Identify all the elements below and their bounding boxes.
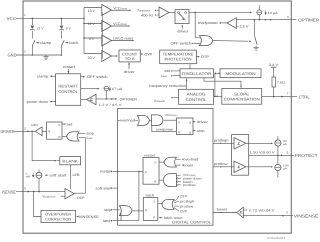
svg-text:OPTIMER: OPTIMER	[298, 17, 319, 22]
ground below OPTIMER switch	[254, 46, 259, 50]
svg-text:off: off	[26, 175, 30, 179]
svg-text:1.50 V/0.80 V: 1.50 V/0.80 V	[250, 151, 276, 155]
wire latch line	[113, 220, 139, 222]
wire VINSENSE pin net	[243, 215, 293, 217]
svg-text:OSCILLATOR: OSCILLATOR	[182, 71, 212, 76]
wire protlow stub	[178, 184, 181, 186]
driver switch box	[175, 10, 189, 24]
wire CTRL pin net	[262, 96, 297, 98]
node Q-branch	[194, 12, 196, 14]
AND gate driver set	[151, 115, 162, 126]
svg-text:4: 4	[24, 186, 26, 190]
arrow Is direction	[32, 173, 34, 177]
switch latch	[62, 40, 65, 46]
wire resistor to CTRL	[273, 87, 275, 97]
wire branch down to OR gate	[194, 12, 196, 37]
svg-text:fmax: fmax	[161, 74, 167, 78]
wire zener D2 to switch	[61, 31, 63, 39]
wire stop output	[193, 130, 195, 132]
ground symbol on GND rail	[43, 55, 48, 59]
current source 30uA	[275, 140, 281, 146]
wire overload stub from edge	[118, 119, 120, 121]
wire DRV buffer input	[42, 130, 47, 132]
node restart-latch branch	[138, 171, 140, 173]
comparator protlow	[234, 161, 246, 172]
supply tick 3.4V	[271, 66, 276, 68]
wire switch2 to GND	[61, 46, 63, 55]
arrow clamp output	[50, 75, 52, 77]
wire soft start source top stub	[38, 170, 40, 173]
svg-text:PROTECT: PROTECT	[295, 153, 318, 158]
wire restart into block	[67, 69, 69, 74]
svg-text:R: R	[153, 216, 155, 220]
wire OR to OPTIMER discharge switch	[213, 40, 248, 43]
svg-text:set: set	[164, 69, 170, 73]
wire VCC rail	[16, 17, 84, 19]
wire 10uA source top stub	[258, 5, 260, 10]
wire 67uA to OPTIMER sense line	[105, 91, 107, 99]
wire tap 13V	[84, 7, 102, 9]
svg-text:protlow: protlow	[180, 204, 194, 208]
arrow soft start control	[45, 174, 47, 176]
svg-text:COUNT: COUNT	[122, 52, 138, 56]
svg-text:OTP: OTP	[180, 194, 188, 198]
wire OFF switch output	[81, 76, 85, 78]
svg-text:67 µA: 67 µA	[112, 87, 123, 91]
comparator VCC(start) 13V	[102, 5, 112, 16]
wire driver switch to 10uA source	[189, 11, 251, 13]
svg-text:µA: µA	[283, 143, 287, 146]
wire DRIVER pin net	[14, 130, 35, 132]
OR gate latch inputs	[162, 199, 174, 209]
svg-text:OFF switch: OFF switch	[171, 42, 192, 46]
svg-text:restart: restart	[100, 170, 112, 174]
wire set into oscillator	[173, 70, 180, 72]
svg-text:3.4 V: 3.4 V	[269, 63, 279, 67]
wire OCP output	[74, 192, 85, 194]
wire OVP stub	[174, 208, 179, 212]
svg-text:clamp: clamp	[40, 41, 51, 45]
svg-text:OVP: OVP	[180, 209, 188, 213]
wire driver clock into counter	[128, 63, 130, 69]
wire OTP output	[196, 56, 199, 58]
hysteresis glyph vinsense	[240, 211, 243, 213]
wire OR to S latch FF	[158, 203, 162, 204]
svg-text:DRV: DRV	[31, 123, 38, 127]
arrow power down output	[50, 101, 52, 103]
wire oscillator to slope compensation	[204, 78, 241, 88]
arrow clamp control	[36, 42, 38, 44]
arrow VINSENSE input	[77, 216, 79, 218]
flip-flop latch FF	[143, 198, 158, 221]
wire tap 9V	[84, 37, 102, 39]
block BLANK	[60, 157, 81, 165]
block ANALOG CONTROL	[179, 89, 214, 104]
svg-text:22 V: 22 V	[37, 27, 45, 31]
wire tap 12V	[84, 23, 102, 25]
wire zener D1 to switch	[31, 31, 33, 39]
wire 30uA top stub	[277, 136, 279, 140]
svg-text:13 V: 13 V	[88, 9, 96, 13]
svg-text:protlow: protlow	[214, 162, 228, 166]
wire osc-mod link down to slope-analog link	[214, 73, 216, 96]
block DIGITAL CONTROL	[118, 108, 213, 225]
svg-text:latch: latch	[146, 194, 155, 198]
wire VCC(start) stub	[177, 174, 181, 176]
svg-text:2: 2	[24, 50, 26, 54]
wire 100uA bottom stub	[277, 171, 279, 178]
svg-text:soft start: soft start	[49, 174, 66, 178]
wire VCC sense bus	[83, 8, 85, 54]
wire prothigh stub	[174, 201, 179, 203]
wire fmax input stub	[79, 137, 86, 139]
svg-text:set: set	[66, 122, 72, 126]
svg-text:400 Hz: 400 Hz	[141, 13, 154, 17]
wire ISENSE pin net	[16, 191, 65, 193]
svg-text:overpower: overpower	[156, 128, 175, 132]
wire oscillator-modulation	[216, 72, 220, 74]
svg-text:VCC(stop): VCC(stop)	[113, 22, 127, 26]
wire LEB blanking to OCP	[70, 165, 72, 189]
svg-text:driver: driver	[197, 120, 209, 124]
svg-text:VINSENSE: VINSENSE	[79, 215, 100, 219]
wire restart line	[113, 170, 143, 172]
svg-text:DRIVER: DRIVER	[1, 129, 15, 134]
wire AND to R restart FF	[159, 179, 163, 181]
wire comparator lower-input chain	[101, 13, 103, 59]
svg-text:12 V: 12 V	[88, 22, 96, 26]
wire vinpeak into analog control	[173, 97, 178, 99]
current source 10uA	[257, 10, 262, 15]
svg-text:GND: GND	[8, 53, 17, 58]
wire bowin	[213, 212, 237, 214]
svg-text:overload: overload	[183, 157, 198, 161]
wire soft start into block	[113, 187, 118, 189]
wire driver to BLANK	[32, 131, 56, 160]
svg-text:bowin: bowin	[183, 163, 193, 167]
svg-text:CORRECTION: CORRECTION	[45, 217, 71, 221]
wire OR to S restart FF	[159, 161, 164, 163]
node CTRL-resistor	[273, 96, 275, 98]
wire power down stub	[178, 177, 181, 179]
wire PROTECT to 100uA	[277, 155, 279, 164]
wire temp block to oscillator	[189, 64, 191, 69]
comparator VINSENSE 0.72V/0.84V	[237, 207, 244, 218]
svg-text:Vvinpeak: Vvinpeak	[154, 99, 166, 103]
hysteresis glyph prothigh	[237, 143, 240, 145]
svg-text:latch reset: latch reset	[164, 216, 183, 220]
wire tap 30V	[84, 53, 102, 55]
arrow latch reset	[159, 217, 161, 219]
wire comparator to driver switch	[169, 12, 175, 14]
svg-text:latch: latch	[103, 219, 112, 223]
svg-text:frequency reduction: frequency reduction	[149, 84, 186, 88]
block RESTART CONTROL	[56, 74, 81, 106]
svg-text:protlow: protlow	[183, 183, 196, 187]
svg-text:restart: restart	[144, 154, 155, 158]
wire protlow stub 2	[174, 205, 179, 207]
wire OPTIMER pin net	[236, 19, 296, 21]
svg-text:latch: latch	[69, 41, 78, 45]
comparator OCP	[65, 188, 74, 198]
arrow 10uA direction	[265, 10, 267, 15]
block OVERPOWER CORRECTION	[41, 210, 76, 222]
wire OR to R input	[62, 135, 67, 137]
AND gate restart reset	[163, 174, 176, 187]
wire OPTIMER down to switch	[253, 20, 255, 36]
svg-text:µA: µA	[283, 168, 287, 171]
svg-text:3: 3	[24, 126, 26, 130]
svg-text:CONTROL: CONTROL	[186, 97, 208, 102]
svg-text:UVLO reset: UVLO reset	[113, 36, 133, 40]
wire PROTECT pin net	[249, 154, 294, 156]
svg-text:OPTIMER: OPTIMER	[120, 97, 138, 101]
block OSCILLATOR	[180, 69, 214, 78]
svg-text:MODULATION: MODULATION	[226, 71, 256, 76]
comparator prothigh	[234, 138, 246, 149]
svg-text:0.72 V/0.84 V: 0.72 V/0.84 V	[249, 208, 276, 212]
node GND-sw2	[61, 54, 63, 56]
arrow switch control	[249, 40, 251, 42]
wire stop into OR	[113, 209, 120, 211]
svg-text:S: S	[153, 200, 155, 204]
svg-text:soft start: soft start	[96, 186, 112, 190]
svg-text:2.5 V: 2.5 V	[239, 25, 249, 29]
svg-text:clamp: clamp	[37, 75, 48, 79]
svg-text:VINSENSE: VINSENSE	[294, 213, 319, 218]
node OPTIMER-67uA	[106, 98, 108, 100]
node isense-softstart	[38, 191, 40, 193]
svg-text:S: S	[154, 161, 156, 165]
flip-flop restart FF	[143, 158, 159, 185]
switch clamp	[32, 40, 35, 46]
comparator overpower 2.5V	[227, 18, 236, 29]
arrow 67uA direction	[109, 86, 111, 90]
block SLOPE COMPENSATION	[222, 88, 262, 104]
svg-text:S: S	[178, 120, 180, 124]
wire zener D1 top	[31, 18, 33, 25]
wire AND to driver FF S	[164, 119, 177, 121]
zener diode 22 V clamp	[30, 26, 34, 29]
wire 2.5V ref stub	[236, 25, 238, 27]
wire protlow	[213, 166, 234, 168]
svg-text:VCC(start): VCC(start)	[113, 6, 127, 10]
wire stop input stub	[79, 132, 86, 134]
svg-text:R: R	[154, 180, 156, 184]
svg-text:BLANK: BLANK	[62, 160, 78, 164]
svg-text:bowin: bowin	[217, 208, 228, 212]
wire prothigh comparator to 30uA source	[246, 142, 272, 144]
svg-text:R: R	[58, 135, 60, 139]
svg-text:DIGITAL CONTROL: DIGITAL CONTROL	[172, 221, 211, 225]
wire zener D2 top	[61, 18, 63, 25]
comparator antipause	[159, 7, 169, 18]
node VCC-zener1	[32, 18, 34, 20]
svg-text:OVERPOWER: OVERPOWER	[45, 213, 71, 217]
svg-text:CTRL: CTRL	[299, 94, 311, 99]
svg-text:1: 1	[24, 13, 26, 17]
svg-text:30 V: 30 V	[88, 56, 96, 60]
svg-text:stop: stop	[197, 129, 205, 133]
OR gate stop/fmax	[67, 132, 79, 141]
wire 10uA source to OPTIMER line	[258, 15, 260, 20]
wire comparator to counter	[112, 55, 118, 57]
svg-text:10 µA: 10 µA	[268, 11, 279, 15]
svg-text:VCC: VCC	[7, 16, 17, 21]
schmitt trigger OPTIMER 1.2V/4.5V	[87, 94, 96, 104]
wire restart control to 67uA source	[81, 88, 99, 90]
wire overpower correction to ISENSE	[34, 192, 41, 217]
svg-text:6: 6	[287, 150, 289, 154]
svg-text:019aab284: 019aab284	[267, 236, 285, 240]
wire schmitt output to restart control	[81, 99, 87, 101]
node VCC-bus	[83, 18, 85, 20]
wire slope to analog	[214, 95, 222, 97]
wire fmax into oscillator	[173, 75, 180, 77]
svg-text:restart: restart	[63, 65, 75, 69]
wire prothigh	[213, 142, 234, 144]
OR gate off-switch	[199, 36, 212, 46]
wire bowin stub	[176, 164, 181, 166]
svg-text:stop: stop	[87, 132, 95, 136]
svg-text:prothigh: prothigh	[214, 139, 229, 143]
OR gate restart set	[164, 157, 176, 167]
svg-text:V(adj)sense: V(adj)sense	[42, 195, 56, 199]
wire 3.4V to resistor	[273, 67, 275, 77]
wire OR to latch FF	[132, 210, 143, 212]
svg-text:8: 8	[287, 15, 289, 19]
hysteresis glyph protlow	[237, 166, 240, 168]
wire set into S	[62, 123, 65, 125]
svg-text:prothigh: prothigh	[180, 199, 194, 203]
wire VCC(start) output	[112, 9, 131, 11]
svg-text:OCP: OCP	[77, 196, 85, 200]
node OPTIMER-source	[259, 19, 261, 21]
wire VCC(stop) output	[112, 25, 130, 27]
svg-text:Tantipause: Tantipause	[137, 9, 151, 13]
block TEMPERATURE PROTECTION	[160, 50, 197, 64]
node VCC-zener2	[61, 18, 63, 20]
comparator VCC(stop) 12V	[102, 21, 112, 32]
node driver-blank branch	[31, 131, 33, 133]
node OPTIMER-switch	[254, 19, 256, 21]
wire bowin stub 2	[178, 181, 181, 183]
svg-text:stop: stop	[104, 208, 112, 212]
wire latch to OR input	[120, 213, 121, 220]
block protect comparators	[232, 135, 249, 176]
node isense-overpower branch	[33, 191, 35, 193]
switch OPTIMER discharge	[254, 36, 257, 45]
wire driver output	[193, 121, 195, 123]
wire soft start source to ISENSE	[38, 178, 40, 191]
arrow latch control	[65, 42, 67, 44]
wire OTP stub	[174, 196, 179, 201]
current source 67uA	[104, 86, 109, 91]
svg-text:LEB: LEB	[73, 173, 81, 177]
wire vinsense ref stub	[243, 209, 247, 211]
svg-text:7 kΩ: 7 kΩ	[277, 80, 286, 84]
wire restart down to latch line	[138, 171, 140, 220]
svg-text:overpower: overpower	[198, 21, 219, 25]
current source soft start	[36, 172, 42, 178]
resistor 7k	[272, 77, 276, 87]
svg-text:PROTECTION: PROTECTION	[165, 57, 192, 62]
svg-text:CONTROL: CONTROL	[58, 89, 78, 94]
svg-text:OVP: OVP	[144, 52, 153, 56]
wire Vadjsense ref stub	[61, 195, 66, 197]
wire protlow comparator to 100uA source	[246, 166, 272, 168]
block COUNT TO 8	[119, 50, 140, 62]
current source 100uA	[275, 164, 281, 170]
wire OPTIMER sense line	[96, 98, 116, 100]
hysteresis glyph	[90, 98, 93, 100]
svg-text:7: 7	[287, 92, 289, 96]
svg-text:RESTART: RESTART	[58, 84, 78, 89]
node PROTECT-sources	[277, 155, 279, 157]
svg-text:fmax: fmax	[87, 136, 93, 140]
wire switch1 to GND	[31, 46, 33, 55]
svg-text:driver: driver	[124, 70, 136, 74]
wire GND rail	[16, 54, 62, 56]
svg-text:OTP: OTP	[201, 55, 210, 59]
svg-text:ISENSE: ISENSE	[2, 189, 16, 194]
wire overpower to driver FF R	[152, 126, 177, 132]
svg-text:driver: driver	[177, 30, 189, 34]
wire 30uA to PROTECT	[277, 146, 279, 155]
OR gate latch set	[119, 206, 132, 216]
flip-flop driver set/stop FF	[177, 118, 194, 135]
buffer DRV	[35, 127, 42, 136]
wire UVLO reset output	[112, 40, 134, 42]
arrow driver control	[181, 25, 183, 27]
wire overload stub	[176, 158, 181, 160]
wire OCP up to OR gate	[84, 138, 86, 194]
block MODULATION	[220, 69, 261, 78]
svg-text:TO 8: TO 8	[125, 57, 135, 61]
wire frequency reduction osc-analog	[186, 78, 188, 90]
node GND-sw1	[32, 54, 34, 56]
OR gate overload	[137, 115, 149, 125]
comparator UVLO reset 9V	[102, 35, 112, 46]
svg-text:OFF switch: OFF switch	[87, 75, 108, 79]
svg-text:1.2 V / 4.5 V: 1.2 V / 4.5 V	[99, 103, 123, 107]
svg-text:COMPENSATION: COMPENSATION	[224, 97, 260, 102]
svg-text:power down: power down	[27, 100, 49, 104]
svg-text:8 V: 8 V	[66, 27, 72, 31]
wire comparator output to overpower label	[220, 22, 227, 24]
flip-flop driver FF	[47, 122, 62, 139]
wire OR to AND	[150, 119, 152, 121]
wire OVP output	[140, 53, 142, 55]
comparator OVP 30V	[102, 51, 112, 62]
zener diode 8 V latch	[60, 26, 64, 29]
svg-text:5: 5	[286, 211, 288, 215]
svg-text:overload: overload	[120, 119, 135, 123]
svg-text:R: R	[178, 131, 180, 135]
svg-text:9 V: 9 V	[89, 37, 95, 41]
svg-text:S: S	[58, 123, 60, 127]
